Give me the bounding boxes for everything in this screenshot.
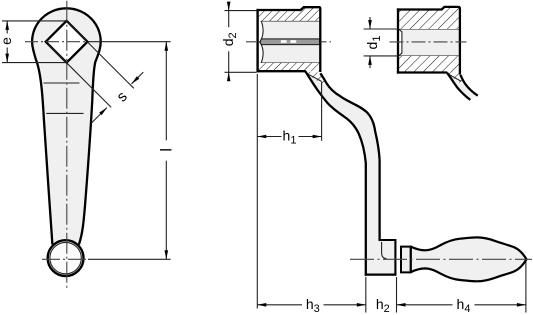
neck fill	[401, 247, 411, 273]
d2 arrow top (pointing down)	[227, 2, 231, 11]
crank body outline	[32, 8, 101, 244]
hub top wall hatch	[258, 7, 320, 21]
hub top edge + lip	[257, 7, 321, 72]
d2 arrow bottom (pointing up)	[227, 72, 231, 81]
s arrow upper	[132, 72, 144, 84]
extension handle tip	[525, 262, 527, 313]
boss inner fillet	[382, 242, 387, 259]
h4 arrow right	[517, 303, 526, 307]
hub cone edge line 2	[46, 112, 83, 114]
dimension s extension lower (flat through bottom-left side)	[48, 44, 111, 107]
dimension l line	[165, 42, 167, 141]
h3 left extension (from hub left face)	[256, 74, 258, 309]
bottom wall hatch	[398, 56, 459, 73]
vertical centerline	[66, 1, 68, 290]
wedge boundary line 2	[448, 74, 462, 82]
hub bottom wall hatch	[258, 63, 320, 71]
arm stub inner edge	[460, 75, 477, 96]
square hole (diamond)	[46, 21, 88, 63]
dimension s extension upper (flat through top-right side)	[68, 22, 134, 88]
arm stub fill	[447, 73, 478, 100]
arm fill	[306, 72, 396, 275]
h4 arrow left	[397, 303, 406, 307]
hub bore fill	[259, 21, 320, 63]
wedge boundary line	[307, 73, 322, 81]
hub centerline right stub	[321, 41, 332, 43]
bore inner edge line	[401, 32, 403, 54]
h3 arrow right	[357, 303, 366, 307]
hub2 centerline	[390, 41, 467, 43]
dimension e extension bottom	[2, 62, 67, 64]
hub bottom edge	[257, 70, 306, 72]
h1 arrow left	[257, 135, 266, 139]
arm outer edge	[305, 71, 365, 275]
dimension d1 extension bottom	[364, 55, 399, 57]
dimension d2 extension bottom	[225, 71, 257, 73]
d1 arrow bottom (pointing up)	[369, 56, 371, 68]
h1 extension right	[321, 82, 323, 141]
dimension l extension top	[88, 41, 171, 43]
dimension d2 extension top	[225, 10, 257, 12]
extension boss right edge	[396, 277, 398, 313]
l arrow up	[165, 42, 169, 51]
h3 arrow left	[257, 303, 266, 307]
dimension d1 extension top	[364, 28, 399, 30]
bore chamfer top	[399, 29, 402, 32]
arm inner edge	[320, 73, 379, 241]
hub2 bottom edge	[397, 71, 447, 73]
grip end circle	[48, 240, 84, 276]
recess white strip	[399, 29, 402, 56]
arm stub outer edge	[447, 73, 470, 100]
dimension h3 line	[257, 304, 302, 306]
transition wedge hatch 2	[447, 72, 465, 84]
svg-text:e: e	[0, 37, 14, 45]
arm/boss bottom edge	[365, 273, 397, 275]
top wall hatch	[398, 7, 459, 29]
bore chamfer bottom	[399, 53, 402, 56]
square hole band	[260, 39, 320, 45]
h1 arrow right	[313, 135, 322, 139]
hub recess white	[259, 21, 263, 63]
handle bulb	[411, 237, 527, 281]
dimension h4 line	[397, 304, 453, 306]
boss right edge	[394, 239, 396, 276]
d1 arrow top (pointing down)	[369, 17, 371, 29]
hub2 top edge + lip	[397, 7, 460, 75]
dimension l extension bottom	[88, 258, 171, 260]
bore bottom line	[261, 62, 320, 64]
grip end inner circle	[50, 242, 81, 273]
horizontal centerline grip circle	[42, 258, 88, 260]
bore top line	[399, 28, 459, 30]
handle centerline	[350, 258, 532, 260]
bore fill	[399, 29, 459, 56]
hub cone edge line 1	[44, 82, 80, 84]
horizontal centerline head	[25, 41, 88, 43]
bore top line	[261, 20, 320, 22]
dimension h1 line	[257, 136, 281, 138]
bore bottom line	[399, 55, 459, 57]
transition wedge hatch	[306, 72, 326, 85]
hub outline: left face	[256, 9, 258, 72]
hub2 left face	[397, 8, 399, 73]
hub recess curve	[260, 21, 263, 63]
extension arm left edge	[365, 277, 367, 313]
centerline white dashes on band	[281, 40, 287, 43]
e arrow up	[5, 21, 9, 30]
crank body fill	[32, 8, 101, 244]
svg-text:l: l	[158, 148, 175, 152]
hub centerline left stub	[246, 41, 260, 43]
l arrow down	[165, 250, 169, 259]
dimension e line	[6, 21, 8, 34]
neck outline	[400, 246, 411, 274]
dimension e extension top	[2, 20, 67, 22]
s arrow lower	[91, 108, 107, 124]
boss top edge	[379, 239, 395, 241]
dimension d2 line	[228, 3, 230, 28]
e arrow down	[5, 54, 9, 63]
